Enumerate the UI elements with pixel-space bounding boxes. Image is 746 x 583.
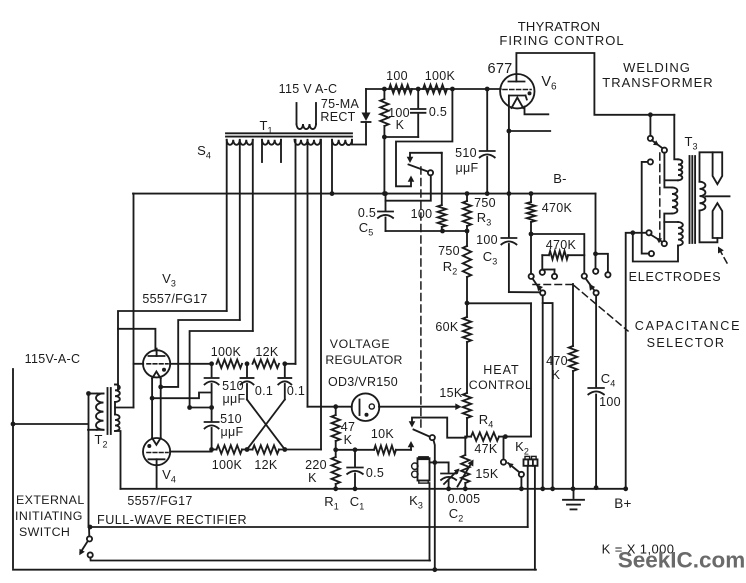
wire V6 aux stub — [509, 130, 550, 132]
capacitor 510uuF upper — [205, 364, 219, 421]
transformer T2 secondary upper — [115, 385, 120, 415]
resistor R3 750 — [463, 191, 471, 231]
wire top row right end — [285, 363, 296, 365]
wire selector throw stub — [542, 270, 557, 280]
svg-text:12K: 12K — [255, 345, 279, 359]
svg-text:CONTROL: CONTROL — [469, 378, 533, 392]
label 75-MA RECT — [320, 97, 359, 124]
transformer T2 secondary lower — [115, 415, 120, 432]
switch blade S1 — [409, 165, 429, 172]
dashed arrow to electrodes — [718, 247, 727, 264]
switch contact circle K2 — [519, 472, 524, 477]
label 12K bottom — [254, 458, 278, 472]
resistor 100K top — [217, 360, 243, 368]
label CAPACITANCE SELECTOR — [635, 319, 741, 350]
label T1 — [260, 118, 273, 136]
wire G3 lead c — [320, 140, 322, 450]
label 510 uuF upper — [222, 379, 245, 406]
wire B+ column — [623, 230, 635, 491]
wire tap1 to winding2 — [664, 180, 672, 187]
svg-text:0.5: 0.5 — [358, 206, 376, 220]
arrow K contact upper — [409, 421, 416, 427]
relay coil K2 — [524, 456, 538, 465]
wire left vertical — [11, 369, 16, 568]
wire G1 lead c — [252, 140, 254, 331]
resistor 60K — [463, 303, 471, 393]
wire T2 primary column — [86, 391, 91, 536]
wire cross coupling a — [247, 400, 285, 450]
arrow 15K lower wiper — [458, 460, 474, 487]
label THYRATRON FIRING CONTROL — [499, 19, 624, 48]
label 0.005 C2 — [448, 492, 481, 524]
dashed pointer to capacitance selector — [574, 286, 628, 332]
wire V6 heater stub — [525, 107, 549, 115]
wire throw2 to tap2 — [663, 222, 665, 241]
label 5557/FG17 bottom — [127, 494, 192, 508]
label 10K — [371, 427, 395, 441]
switch contact circle cap sel pivot — [646, 230, 651, 235]
wire G2 stub b — [280, 140, 282, 162]
wire top pivot feed — [649, 115, 651, 136]
workpiece line — [706, 195, 730, 197]
svg-text:5557/FG17: 5557/FG17 — [142, 292, 207, 306]
svg-text:10K: 10K — [371, 427, 395, 441]
wire T3 secondary top to electrode — [700, 152, 713, 181]
wire heat box top — [467, 302, 531, 304]
transformer T1 secondary winding G3 — [295, 140, 321, 145]
switch contact circle cap sel lower — [649, 251, 654, 256]
arrow selector right blade — [589, 284, 595, 291]
label 100K top — [211, 345, 242, 359]
watermark SeekIC.com — [618, 548, 746, 573]
label 0.5 C1 — [366, 466, 384, 480]
wire upper contact tap — [412, 418, 466, 438]
wire G1 lead a — [226, 140, 228, 311]
transformer T3 primary winding 3 — [678, 222, 683, 246]
tube V6 dot — [528, 91, 532, 95]
capacitor 0.1 right — [278, 364, 291, 400]
wire G3 lead b horizontal — [308, 406, 337, 408]
arrow cap sel top — [653, 140, 659, 145]
wire T3 secondary bottom to electrode — [700, 210, 718, 242]
wire selector left to bus — [540, 295, 545, 491]
ground — [563, 489, 584, 510]
wire 47K bottom rail — [336, 447, 374, 452]
label ELECTRODES — [629, 270, 722, 284]
svg-text:750: 750 — [474, 196, 496, 210]
wire bus left drop — [133, 194, 135, 408]
svg-text:0.5: 0.5 — [429, 105, 447, 119]
label 15K heat — [439, 386, 463, 400]
label VOLTAGE REGULATOR — [325, 337, 402, 367]
svg-text:ELECTRODES: ELECTRODES — [629, 270, 722, 284]
switch blade K — [414, 430, 431, 438]
capacitor C3 100 — [501, 194, 540, 293]
capacitor 510uuF lower — [205, 422, 219, 450]
svg-text:0.1: 0.1 — [287, 384, 305, 398]
label 470K first — [542, 201, 573, 215]
wire G3 lead b — [307, 140, 309, 407]
svg-text:WELDING: WELDING — [623, 60, 691, 75]
switch blade selector left — [533, 279, 542, 292]
arrow switch lower contact — [408, 176, 415, 182]
switch blade K2 — [508, 463, 520, 473]
transformer T1 secondary winding G1 — [227, 140, 253, 145]
label 0.5 (top cap) — [429, 105, 447, 119]
label K3 — [409, 493, 423, 511]
svg-text:510: 510 — [222, 379, 244, 393]
svg-text:100K: 100K — [425, 69, 456, 83]
electrode bottom — [713, 203, 723, 238]
tube V6 plate — [509, 75, 525, 82]
svg-text:K: K — [396, 118, 405, 132]
svg-text:μμF: μμF — [223, 392, 246, 406]
node top row dots — [209, 361, 287, 366]
label 220 K — [305, 458, 327, 485]
switch contact circle top throw — [662, 148, 667, 153]
label 100 (damper) — [411, 207, 433, 221]
node grid dots — [382, 87, 490, 92]
capacitor C4 100 — [588, 295, 604, 490]
capacitor 510 uuF — [480, 89, 495, 196]
tube V3 cathode — [152, 372, 161, 379]
tube V3 plate bar — [149, 349, 165, 356]
tube V3 envelope — [143, 350, 170, 377]
capacitor C1 0.5 — [347, 450, 363, 491]
svg-text:SWITCH: SWITCH — [19, 525, 70, 539]
arrow K contact lower — [408, 441, 415, 447]
label T3 — [685, 134, 698, 152]
label 510 uuF — [455, 146, 478, 175]
label 100 C3 — [476, 233, 498, 267]
wire switch blade to C5 top — [386, 175, 431, 200]
tube V6 cathode — [509, 96, 527, 109]
svg-text:12K: 12K — [254, 458, 278, 472]
arrow cap sel bottom — [656, 238, 662, 243]
label WELDING TRANSFORMER — [602, 60, 713, 90]
electrode top — [713, 152, 723, 184]
svg-text:RECT: RECT — [320, 110, 355, 124]
label 0.5 C5 — [358, 206, 376, 238]
svg-text:15K: 15K — [475, 467, 499, 481]
svg-text:0.005: 0.005 — [448, 492, 481, 506]
svg-text:B+: B+ — [614, 496, 632, 511]
wire G2 stub a — [261, 140, 263, 162]
wire throw to tap — [663, 153, 665, 181]
tube V4 dot — [147, 444, 151, 448]
label 750 R2 — [438, 244, 460, 277]
potentiometer 15K heat — [463, 393, 471, 437]
wire bottom most — [13, 569, 536, 571]
transformer T3 secondary winding — [700, 182, 706, 211]
wire selector feed — [633, 232, 647, 234]
svg-text:510: 510 — [455, 146, 477, 160]
label 677 — [487, 61, 512, 77]
label 12K top — [255, 345, 279, 359]
wire tap 2 — [664, 214, 678, 222]
wire K2 coil left leg — [527, 466, 529, 527]
wire K2 coil right leg — [534, 466, 536, 570]
wire grid node down to switch — [396, 89, 452, 186]
resistor 100K bottom — [217, 445, 243, 453]
transformer T1 core — [226, 133, 352, 136]
label 47 K — [341, 420, 356, 447]
mechanical link dashed — [420, 167, 422, 427]
wire G4 left lead — [330, 140, 335, 196]
switch blade selector right — [586, 278, 595, 290]
label 15K lower — [475, 467, 499, 481]
label 470 K third — [546, 354, 568, 382]
wire T3 primary bottom return — [633, 235, 678, 262]
wire T3 tap 1 — [664, 179, 678, 181]
label K equals — [602, 542, 675, 557]
resistor 470K third — [569, 284, 577, 491]
label V4 — [162, 467, 176, 485]
label 750 R3 — [474, 196, 496, 228]
capacitor 0.5 (top) — [411, 89, 426, 137]
arrow switch upper contact — [407, 157, 414, 163]
node bottom row dots — [209, 447, 287, 452]
svg-text:EXTERNAL: EXTERNAL — [16, 493, 85, 507]
tube V4 grid dashes — [147, 452, 168, 454]
label HEAT CONTROL — [469, 363, 533, 392]
label B+ — [614, 496, 632, 511]
wire V4 plate to bus — [156, 467, 158, 489]
label EXTERNAL INITIATING SWITCH — [15, 493, 85, 539]
label FULL-WAVE RECTIFIER — [97, 513, 247, 527]
wire heater right — [160, 379, 162, 439]
svg-text:75-MA: 75-MA — [321, 97, 360, 111]
wire bottom row — [212, 449, 321, 451]
resistor 12K top — [253, 360, 280, 368]
capacitor C2 0.005 — [441, 462, 456, 491]
capacitor 0.1 left — [241, 364, 254, 400]
svg-text:750: 750 — [438, 244, 460, 258]
wire 115V to T2 — [13, 423, 88, 425]
label 100 (grid resistor) — [386, 69, 408, 83]
tube V6 grid dashes — [503, 89, 531, 91]
label K2 — [515, 439, 529, 457]
wire V3 output — [170, 363, 212, 365]
label 5557/FG17 top — [142, 292, 207, 306]
label T2 — [95, 432, 108, 450]
resistor 470K second — [542, 251, 584, 259]
wire V3 grid lead — [134, 363, 144, 365]
wire T2 primary stubs — [88, 394, 97, 430]
wire switch upper contact — [410, 153, 441, 157]
switch external initiating — [79, 536, 92, 557]
switch pivot circle S1 — [428, 170, 433, 175]
wire bottom to K2 right leg riser — [0, 0, 1, 1]
svg-text:B-: B- — [553, 171, 567, 186]
svg-text:K: K — [552, 368, 561, 382]
wire staircase 2 — [161, 320, 240, 387]
wire 10K to lower contact arrow — [410, 446, 412, 450]
tube V3 dot — [162, 368, 166, 372]
wire C5 bottom rail — [386, 229, 470, 234]
svg-text:μμF: μμF — [221, 425, 244, 439]
svg-text:60K: 60K — [435, 320, 459, 334]
svg-text:100: 100 — [476, 233, 498, 247]
wire V6 cathode lead — [507, 96, 512, 197]
resistor 47K vertical — [332, 407, 340, 452]
svg-text:K: K — [308, 471, 317, 485]
wire VR left pin — [333, 404, 351, 409]
transformer T1 primary winding 115V A-C — [297, 103, 317, 129]
resistor 100K (grid) — [423, 85, 447, 93]
svg-text:TRANSFORMER: TRANSFORMER — [602, 75, 713, 90]
transformer T3 primary winding 2 — [672, 187, 677, 213]
wire V6 plate to welding transformer — [516, 53, 674, 117]
wire R4 to K2 contact — [503, 437, 505, 460]
label 115V-A-C input — [25, 352, 81, 366]
switch contact circle top pivot — [648, 136, 653, 141]
svg-text:470K: 470K — [542, 201, 573, 215]
wire G4 right lead — [352, 140, 366, 145]
label OD3/VR150 — [328, 375, 398, 389]
svg-text:OD3/VR150: OD3/VR150 — [328, 375, 398, 389]
transformer T3 core — [690, 156, 696, 243]
wire V3 plate — [118, 329, 155, 351]
label R1 C1 — [324, 494, 364, 512]
label C4 100 — [599, 371, 621, 409]
label 470K second — [546, 238, 577, 252]
wire heater left — [151, 379, 153, 439]
arrow selector left blade — [537, 285, 544, 292]
resistor 100 vertical — [438, 205, 446, 231]
tube VR OD3/VR150 — [352, 393, 380, 421]
resistor R4 47K — [465, 432, 505, 440]
label 115 V A-C — [279, 82, 338, 96]
label R4 47K — [474, 412, 498, 456]
wire switch row 2 — [90, 557, 430, 560]
wire B- to throw 1 — [593, 254, 598, 274]
svg-text:100: 100 — [599, 395, 621, 409]
wire bus drop to T2 center tap — [115, 407, 134, 409]
wire 100K bottom down to bus — [382, 137, 387, 196]
wire 470K node to selector — [529, 234, 534, 279]
wire staircase 1 — [118, 311, 227, 391]
label S4 — [197, 143, 211, 161]
label 510 uuF lower — [220, 412, 243, 439]
svg-text:SeekIC.com: SeekIC.com — [618, 548, 746, 573]
label 100K bottom — [212, 458, 243, 472]
wire staircase 3 — [187, 331, 253, 410]
wire 100 ohm feed — [440, 153, 443, 205]
switch blade cap sel top — [652, 140, 663, 148]
label 100 K (vertical resistor) — [388, 106, 410, 132]
wire stair3 to cap midpoint — [190, 405, 214, 410]
wire G3 lead a — [295, 140, 297, 364]
tube V4 plate bar — [149, 459, 165, 467]
switch pivot circle K2 — [501, 460, 506, 465]
wire B- to throw 2 — [596, 254, 611, 278]
svg-text:100K: 100K — [211, 345, 242, 359]
svg-text:115V-A-C: 115V-A-C — [25, 352, 81, 366]
svg-text:15K: 15K — [439, 386, 463, 400]
resistor 470K first — [527, 191, 535, 236]
resistor 10K — [374, 446, 411, 454]
svg-text:220: 220 — [305, 458, 327, 472]
svg-text:CAPACITANCE: CAPACITANCE — [635, 319, 741, 333]
wire heat box right — [530, 303, 532, 436]
svg-text:115 V A-C: 115 V A-C — [279, 82, 338, 96]
svg-text:VOLTAGE: VOLTAGE — [330, 337, 390, 351]
wire bottom bus B+ — [121, 488, 626, 490]
label 0.1 right — [287, 384, 305, 398]
wire T2 sec bottom — [115, 431, 121, 489]
wire T3 primary feed — [674, 115, 678, 160]
transformer T2 core — [108, 388, 111, 434]
wire lower throw to upper throw — [642, 162, 649, 254]
wire cross coupling b — [247, 400, 285, 450]
wire heater tap left to caps — [152, 393, 212, 399]
resistor 100K vertical — [380, 89, 388, 139]
wire V4 grid lead — [170, 451, 212, 453]
svg-text:K: K — [344, 433, 353, 447]
wire 470K node right — [531, 234, 587, 279]
diode 75-MA rectifier — [362, 89, 371, 145]
switch contact circle cap sel throw — [662, 241, 667, 246]
label B- — [553, 171, 567, 186]
wire blade to K3 node — [432, 440, 437, 572]
svg-text:100K: 100K — [212, 458, 243, 472]
wire selector stub to bus — [543, 303, 555, 491]
wire G1 lead b — [239, 140, 241, 320]
wire wiper from VR — [379, 406, 457, 408]
svg-text:FULL-WAVE RECTIFIER: FULL-WAVE RECTIFIER — [97, 513, 247, 527]
wire T2 sec top — [115, 384, 118, 386]
transformer T2 primary — [96, 394, 103, 430]
transformer T3 primary winding 1 — [678, 159, 682, 180]
svg-text:5557/FG17: 5557/FG17 — [127, 494, 192, 508]
wire 470K second left lead — [540, 255, 545, 275]
transformer T1 secondary winding G4 — [332, 140, 352, 145]
svg-text:47: 47 — [341, 420, 356, 434]
svg-text:470: 470 — [546, 354, 568, 368]
wire K3 top to C2 — [430, 461, 449, 463]
label 0.1 left — [255, 384, 273, 398]
switch contact circle — [540, 290, 545, 295]
svg-text:0.5: 0.5 — [366, 466, 384, 480]
label V6 — [541, 74, 557, 93]
arrow wiper — [455, 403, 461, 410]
label 60K — [435, 320, 459, 334]
switch contact circle top lower — [648, 159, 653, 164]
svg-text:100: 100 — [386, 69, 408, 83]
arrow C2 trimmer — [444, 469, 460, 485]
svg-text:REGULATOR: REGULATOR — [325, 353, 402, 367]
svg-text:100: 100 — [411, 207, 433, 221]
mechanical link selector dashed — [533, 284, 577, 286]
wire row y527 — [88, 525, 528, 530]
mechanical link cap selector dashed — [659, 153, 661, 240]
relay coil K3 — [412, 457, 430, 483]
label V3 — [162, 271, 176, 289]
wire K3 bottom lead — [429, 483, 431, 560]
capacitor C5 0.5 — [378, 191, 393, 231]
switch contact circle right — [594, 290, 599, 295]
tube V4 heater V — [152, 438, 161, 445]
wire main bus — [133, 193, 596, 195]
wire cap bottom to resistor bottom — [384, 136, 418, 138]
label 100K (grid resistor) — [425, 69, 456, 83]
wire B- leg — [593, 194, 598, 257]
node heater tap left — [150, 396, 155, 401]
switch blade cap sel bottom — [651, 235, 663, 243]
resistor 12K bottom — [253, 445, 280, 453]
svg-text:470K: 470K — [546, 238, 577, 252]
